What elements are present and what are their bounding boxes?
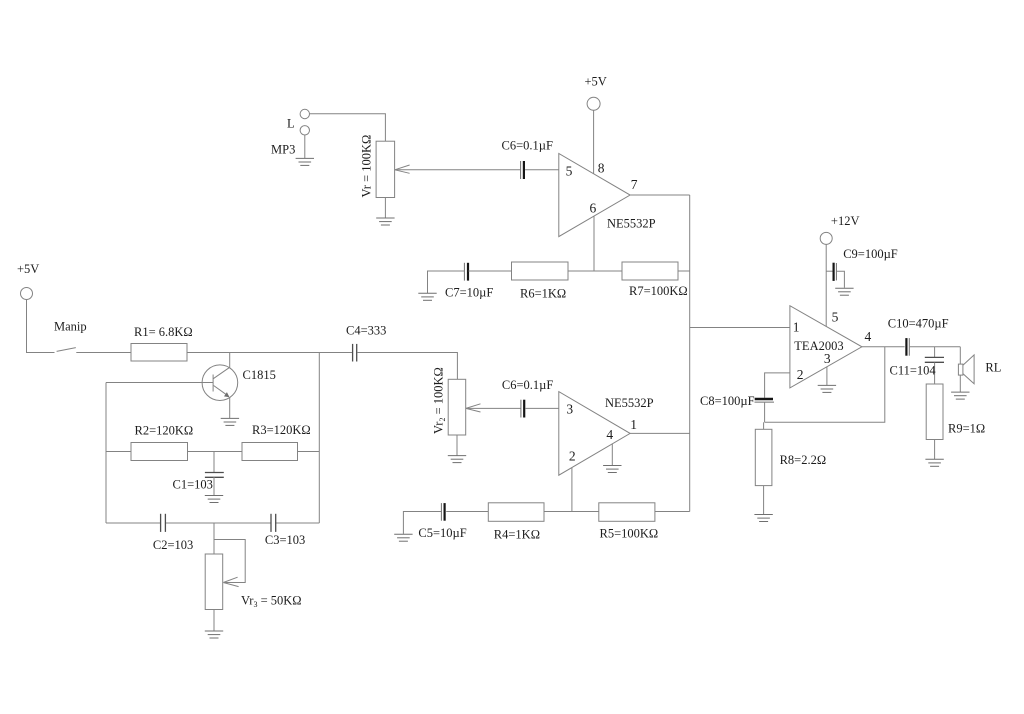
wire Vr2 wiper to C6b bbox=[466, 407, 521, 409]
ground below speaker bbox=[951, 392, 969, 399]
resistor R6 bbox=[512, 262, 569, 300]
resistor R4 bbox=[488, 503, 544, 542]
svg-text:C6=0.1µF: C6=0.1µF bbox=[502, 378, 553, 392]
svg-text:C1815: C1815 bbox=[243, 368, 276, 382]
svg-text:5: 5 bbox=[566, 164, 573, 179]
ground at C7 bbox=[418, 293, 436, 300]
svg-text:RL: RL bbox=[985, 361, 1001, 375]
ground below Vr3 bbox=[205, 631, 223, 638]
wire left vertical of oscillator bbox=[105, 383, 107, 524]
op-amp U2 NE5532P bbox=[559, 392, 654, 476]
capacitor C9 bbox=[826, 247, 898, 288]
transistor Q1 C1815 bbox=[202, 365, 276, 401]
wire U3 pin3 to ground bbox=[826, 367, 828, 385]
wire MP3 to ground bbox=[304, 135, 306, 158]
wire right bus vertical bbox=[689, 195, 691, 511]
svg-text:+5V: +5V bbox=[17, 262, 39, 276]
power +5V left terminal bbox=[17, 262, 39, 300]
ground below R8 bbox=[754, 515, 772, 522]
svg-text:C5=10µF: C5=10µF bbox=[418, 526, 466, 540]
svg-text:4: 4 bbox=[865, 329, 872, 344]
svg-text:C7=10µF: C7=10µF bbox=[445, 285, 493, 299]
wire feedback to R8 bbox=[763, 422, 765, 429]
svg-text:C4=333: C4=333 bbox=[346, 324, 386, 338]
wire C7 ground stub bbox=[428, 271, 465, 293]
ground at C9 bbox=[835, 288, 853, 295]
amplifier U3 TEA2003 bbox=[790, 306, 872, 388]
svg-text:+5V: +5V bbox=[585, 74, 607, 88]
ground below MP3 bbox=[296, 158, 314, 165]
wire Vr1 wiper to C6 bbox=[395, 169, 520, 171]
svg-text:3: 3 bbox=[566, 402, 573, 417]
potentiometer Vr2 100K bbox=[432, 367, 481, 455]
resistor R5 bbox=[599, 503, 658, 541]
svg-text:R4=1KΩ: R4=1KΩ bbox=[494, 527, 540, 541]
power +5V at U1 pin 8 bbox=[585, 74, 607, 110]
resistor R3 bbox=[242, 423, 311, 461]
ground at C5 bbox=[394, 534, 412, 541]
capacitor C7 bbox=[445, 263, 493, 300]
wire U2 output bbox=[630, 432, 690, 434]
wire switch to R1 bbox=[76, 352, 131, 354]
ground below Vr1 bbox=[376, 218, 394, 225]
ground below Vr2 bbox=[448, 456, 466, 463]
wire U2 pin2 down bbox=[571, 468, 573, 512]
svg-text:C10=470µF: C10=470µF bbox=[888, 317, 949, 331]
ground below C1 bbox=[205, 496, 223, 503]
wire feedback line to output bbox=[765, 347, 885, 423]
wire bus to U3 pin1 bbox=[690, 327, 790, 329]
wire R4 to R5 bbox=[544, 511, 599, 513]
wire R3 to right vertical bbox=[298, 451, 320, 453]
capacitor C10 bbox=[888, 317, 949, 356]
svg-text:Manip: Manip bbox=[54, 319, 87, 333]
svg-text:L: L bbox=[287, 117, 295, 131]
svg-text:Vr3 = 50KΩ: Vr3 = 50KΩ bbox=[241, 594, 302, 610]
speaker RL bbox=[958, 347, 1001, 392]
wire R5 to right bus bbox=[655, 511, 690, 513]
wire U2 pin4 to ground bbox=[611, 444, 613, 466]
capacitor C6 top bbox=[502, 138, 553, 179]
svg-text:2: 2 bbox=[797, 367, 804, 382]
wire bottom line of oscillator bbox=[106, 522, 319, 524]
svg-text:Vr = 100KΩ: Vr = 100KΩ bbox=[360, 135, 374, 198]
capacitor C1 bbox=[173, 452, 224, 496]
wire emitter down bbox=[229, 397, 231, 418]
svg-text:C6=0.1µF: C6=0.1µF bbox=[502, 138, 553, 152]
wire C7 to R6 bbox=[469, 270, 512, 272]
resistor R7 bbox=[622, 262, 688, 298]
capacitor C5 bbox=[418, 503, 466, 540]
wire collector to main line bbox=[229, 353, 231, 368]
wire R7 to right bus bbox=[678, 270, 690, 272]
wire left vertical to R2 bbox=[106, 451, 131, 453]
svg-text:C1=103: C1=103 bbox=[173, 478, 213, 492]
svg-text:3: 3 bbox=[824, 351, 831, 366]
resistor R8 bbox=[755, 429, 826, 485]
svg-text:6: 6 bbox=[590, 201, 597, 216]
ground below R9 bbox=[925, 459, 943, 466]
op-amp U1 NE5532P bbox=[559, 154, 656, 237]
wire C5 ground stub bbox=[403, 512, 441, 534]
svg-text:Vr2 = 100KΩ: Vr2 = 100KΩ bbox=[432, 367, 448, 434]
switch Manip bbox=[54, 319, 87, 351]
svg-text:R6=1KΩ: R6=1KΩ bbox=[520, 286, 566, 300]
power +12V terminal bbox=[820, 214, 859, 244]
svg-text:TEA2003: TEA2003 bbox=[794, 339, 843, 353]
svg-text:4: 4 bbox=[606, 427, 613, 442]
svg-text:7: 7 bbox=[631, 177, 638, 192]
wire C10 to speaker bbox=[910, 346, 961, 348]
wire R9 to ground bbox=[934, 440, 936, 460]
wire U1 output bbox=[630, 194, 690, 196]
svg-text:R5=100KΩ: R5=100KΩ bbox=[600, 526, 659, 540]
wire U3 pin2 to C8 bbox=[765, 373, 790, 398]
svg-text:MP3: MP3 bbox=[271, 143, 295, 157]
svg-text:C2=103: C2=103 bbox=[153, 538, 193, 552]
capacitor C3 bbox=[265, 514, 305, 547]
svg-text:R7=100KΩ: R7=100KΩ bbox=[629, 284, 688, 298]
potentiometer Vr3 50K bbox=[205, 523, 301, 631]
wire L to Vr1 top bbox=[310, 114, 386, 142]
wire +12V to U3 pin5 bbox=[825, 244, 827, 326]
resistor R2 bbox=[131, 424, 193, 461]
wire U3 output bbox=[862, 346, 905, 348]
wire C6 to U1 pin5 bbox=[525, 169, 559, 171]
ground at emitter bbox=[221, 418, 239, 425]
wire C6b to U2 pin3 bbox=[525, 407, 559, 409]
wire base from left vertical bbox=[106, 382, 213, 384]
svg-text:1: 1 bbox=[630, 417, 637, 432]
svg-text:R3=120KΩ: R3=120KΩ bbox=[252, 423, 311, 437]
svg-text:NE5532P: NE5532P bbox=[607, 216, 656, 230]
resistor R9 bbox=[926, 384, 985, 440]
svg-text:NE5532P: NE5532P bbox=[605, 396, 654, 410]
svg-text:8: 8 bbox=[598, 160, 605, 175]
capacitor C8 bbox=[700, 394, 774, 408]
capacitor C2 bbox=[153, 514, 193, 552]
terminal MP3 bbox=[271, 126, 309, 157]
svg-text:C11=104: C11=104 bbox=[890, 363, 937, 377]
svg-text:C8=100µF: C8=100µF bbox=[700, 394, 755, 408]
ground at U3 pin3 bbox=[818, 385, 836, 392]
wire C5 to R4 bbox=[446, 511, 488, 513]
wire R6 to R7 bbox=[568, 270, 622, 272]
wire U1 pin 6 down bbox=[593, 216, 595, 271]
svg-text:2: 2 bbox=[569, 449, 576, 464]
potentiometer Vr1 100K bbox=[360, 135, 410, 218]
capacitor C6 second bbox=[502, 378, 553, 417]
svg-text:R2=120KΩ: R2=120KΩ bbox=[135, 424, 194, 438]
wire R2 to R3 bbox=[188, 451, 243, 453]
resistor R1 bbox=[131, 325, 193, 361]
wire right vertical of oscillator bbox=[318, 353, 320, 524]
svg-text:C3=103: C3=103 bbox=[265, 533, 305, 547]
svg-text:1: 1 bbox=[793, 320, 800, 335]
wire C4 to Vr2 top bbox=[357, 353, 457, 380]
capacitor C4 bbox=[346, 324, 386, 362]
svg-text:5: 5 bbox=[832, 310, 839, 325]
wire +5V to U1 pin 8 bbox=[593, 110, 595, 174]
svg-text:+12V: +12V bbox=[831, 214, 860, 228]
svg-text:R1= 6.8KΩ: R1= 6.8KΩ bbox=[134, 325, 193, 339]
terminal L bbox=[287, 109, 309, 130]
wire +5V down to switch bbox=[27, 299, 55, 353]
svg-text:C9=100µF: C9=100µF bbox=[843, 247, 898, 261]
ground at U2 pin4 bbox=[603, 466, 621, 473]
svg-text:R8=2.2Ω: R8=2.2Ω bbox=[780, 453, 827, 467]
wire C8 to feedback junction bbox=[764, 402, 766, 422]
wire R8 to ground bbox=[763, 486, 765, 515]
wire R1 to C4 main line bbox=[187, 352, 353, 354]
svg-text:R9=1Ω: R9=1Ω bbox=[948, 421, 985, 435]
capacitor C11 bbox=[890, 347, 945, 384]
